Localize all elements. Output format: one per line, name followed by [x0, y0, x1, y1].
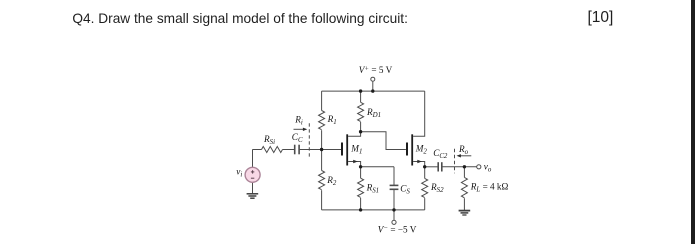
svg-text:Ro: Ro: [458, 144, 469, 156]
svg-text:M2: M2: [415, 144, 428, 156]
svg-text:R1: R1: [327, 114, 337, 126]
svg-text:R2: R2: [326, 175, 337, 187]
svg-text:V− = −5 V: V− = −5 V: [378, 225, 417, 235]
svg-text:M1: M1: [350, 144, 362, 156]
svg-text:vo: vo: [484, 161, 492, 173]
svg-text:CC: CC: [292, 132, 303, 144]
svg-text:Ri: Ri: [294, 115, 303, 127]
svg-text:CS: CS: [400, 184, 410, 196]
svg-text:RL = 4 kΩ: RL = 4 kΩ: [470, 181, 509, 193]
svg-text:RSi: RSi: [263, 134, 275, 146]
svg-text:RS1: RS1: [366, 183, 380, 195]
svg-text:RD1: RD1: [366, 107, 381, 119]
svg-text:RS2: RS2: [430, 182, 444, 194]
svg-text:CC2: CC2: [433, 148, 448, 160]
svg-text:vi: vi: [236, 166, 242, 178]
svg-text:V+ = 5 V: V+ = 5 V: [359, 65, 393, 75]
